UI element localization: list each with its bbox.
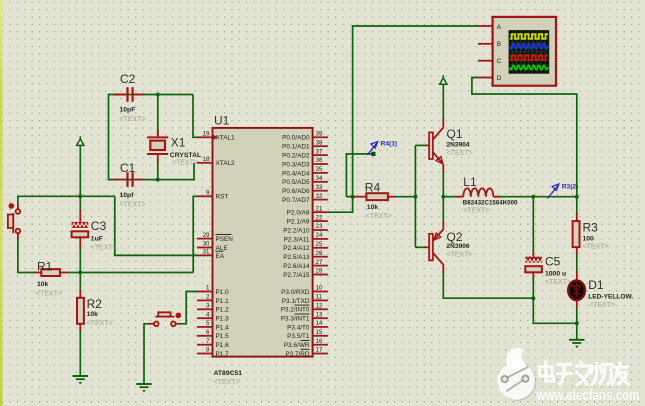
svg-text:A: A <box>497 24 502 31</box>
pin 12 P3.2/INT0 stub <box>281 303 328 314</box>
svg-text:6: 6 <box>206 329 210 336</box>
svg-text:P2.0/A8: P2.0/A8 <box>287 210 310 217</box>
svg-text:R3(2): R3(2) <box>562 183 579 190</box>
diode D1 LED-YELLOW <box>568 271 585 323</box>
oscilloscope pin B stub <box>478 43 493 45</box>
svg-text:R3: R3 <box>583 220 599 234</box>
inductor L1 <box>443 188 533 196</box>
svg-text:P1.5: P1.5 <box>216 333 230 340</box>
svg-text:C1: C1 <box>120 161 136 175</box>
svg-text:10pF: 10pF <box>120 106 136 113</box>
scope trace channel A (yellow square) <box>510 34 548 39</box>
svg-text:P0.6/AD6: P0.6/AD6 <box>282 188 310 195</box>
wire: P2.0 to riser <box>328 197 353 213</box>
pin 33 P0.6/AD6 stub <box>282 184 328 195</box>
svg-text:100: 100 <box>583 235 595 242</box>
svg-text:R4(1): R4(1) <box>381 140 398 147</box>
svg-text:R4: R4 <box>365 180 381 194</box>
pin 7 P1.6 stub <box>197 338 229 349</box>
pin 19 XTAL1 stub <box>197 131 235 142</box>
svg-text:<TEXT>: <TEXT> <box>87 320 113 327</box>
probe R4(1) attach square <box>371 152 375 156</box>
svg-text:14: 14 <box>316 320 323 327</box>
svg-text:U1: U1 <box>214 114 230 128</box>
capacitor C2 <box>114 87 144 102</box>
wire: XTAL1 branch vertical and into pin <box>193 95 198 138</box>
svg-text:16: 16 <box>316 338 323 345</box>
svg-text:P3.5/T1: P3.5/T1 <box>287 333 310 340</box>
svg-text:<TEXT>: <TEXT> <box>447 150 473 157</box>
wire: RST riser <box>193 196 197 272</box>
svg-text:<TEXT>: <TEXT> <box>463 208 489 215</box>
svg-text:P1.0: P1.0 <box>216 289 230 296</box>
svg-text:10pf: 10pf <box>120 192 135 199</box>
svg-text:P0.5/AD5: P0.5/AD5 <box>282 179 310 186</box>
pin 23 P2.2/A10 stub <box>283 223 328 234</box>
pin 32 P0.7/AD7 stub <box>282 193 328 204</box>
svg-text:R1: R1 <box>37 259 53 273</box>
svg-text:P2.1/A9: P2.1/A9 <box>287 219 310 226</box>
svg-text:C5: C5 <box>545 255 561 269</box>
svg-text:P0.7/AD7: P0.7/AD7 <box>282 197 310 204</box>
svg-text:P2.2/A10: P2.2/A10 <box>283 227 310 234</box>
svg-text:3: 3 <box>206 303 210 310</box>
pin 24 P2.3/A11 stub <box>284 232 328 243</box>
pin 8 P1.7 stub <box>197 347 229 358</box>
push button 2 (horizontal) <box>148 312 181 326</box>
svg-text:13: 13 <box>316 311 323 318</box>
svg-text:P2.3/A11: P2.3/A11 <box>284 236 310 243</box>
svg-text:10k: 10k <box>367 204 379 211</box>
wire: Q2 collector to bottom rail <box>443 272 533 298</box>
svg-text:P3.2/INT0: P3.2/INT0 <box>281 307 310 314</box>
svg-text:<TEXT>: <TEXT> <box>91 245 117 252</box>
svg-text:2N3904: 2N3904 <box>447 141 470 148</box>
node: C5 bottom junction <box>531 296 535 300</box>
svg-text:19: 19 <box>203 131 210 138</box>
wire: probe branch <box>346 154 371 197</box>
wire: riser up to scope rail <box>352 26 354 197</box>
resistor R3 <box>573 197 580 272</box>
pin 6 P1.5 stub <box>197 329 229 340</box>
wire: XTAL2 branch vertical <box>193 163 195 181</box>
wire: button2 to P1.0 <box>180 292 198 324</box>
svg-text:AT89C51: AT89C51 <box>214 370 243 377</box>
svg-text:P3.7/RD: P3.7/RD <box>285 351 310 358</box>
svg-text:12: 12 <box>316 303 323 310</box>
svg-text:5: 5 <box>206 320 210 327</box>
pin 35 P0.4/AD4 stub <box>282 166 328 177</box>
node: output node junction <box>575 195 579 199</box>
wire: base rail Q1-Q2 <box>414 145 416 247</box>
svg-text:29: 29 <box>203 232 210 239</box>
pin 9 RST stub <box>197 190 228 201</box>
pin 22 P2.1/A9 stub <box>287 214 328 225</box>
svg-text:37: 37 <box>316 148 323 155</box>
wire: left loop vertical C2-C1 <box>108 94 110 181</box>
wire: C1 bottom row <box>109 179 195 181</box>
svg-text:28: 28 <box>316 268 323 275</box>
svg-text:<TEXT>: <TEXT> <box>545 279 571 286</box>
oscilloscope screen <box>509 30 550 74</box>
power arrow VCC (Q1 collector) <box>440 75 447 120</box>
svg-text:www.elecfans.com: www.elecfans.com <box>536 388 640 404</box>
power arrow VCC (left) <box>77 136 84 196</box>
svg-text:B: B <box>497 41 501 48</box>
pin 15 P3.5/T1 stub <box>287 329 328 340</box>
node: crystal bottom junction <box>156 178 160 182</box>
svg-text:<TEXT>: <TEXT> <box>36 290 62 297</box>
pin 21 P2.0/A8 stub <box>287 205 328 216</box>
resistor R2 <box>77 273 84 376</box>
svg-text:23: 23 <box>316 223 323 230</box>
svg-text:CRYSTAL: CRYSTAL <box>170 152 201 159</box>
svg-text:9: 9 <box>206 190 210 197</box>
push button 1 (vertical) <box>8 196 20 240</box>
svg-text:P0.3/AD3: P0.3/AD3 <box>282 161 310 168</box>
svg-text:4: 4 <box>206 311 210 318</box>
ground (below R2) <box>73 376 89 383</box>
svg-text:RST: RST <box>216 194 229 201</box>
svg-text:D: D <box>497 75 502 82</box>
pin 13 P3.3/INT1 stub <box>281 311 328 322</box>
svg-text:1000 u: 1000 u <box>545 271 566 278</box>
node: C5 top junction <box>531 195 535 199</box>
svg-text:C3: C3 <box>91 219 107 233</box>
svg-text:8: 8 <box>206 347 210 354</box>
svg-text:P2.5/A13: P2.5/A13 <box>283 254 310 261</box>
svg-text:30: 30 <box>203 241 210 248</box>
wire: bottom rail to ground node <box>533 298 577 323</box>
microcontroller U1 AT89C51 <box>213 128 313 357</box>
svg-text:P3.1/TXD: P3.1/TXD <box>282 298 310 305</box>
pin 27 P2.6/A14 stub <box>283 259 328 270</box>
svg-text:P1.2: P1.2 <box>216 307 230 314</box>
node: base junction <box>413 195 417 199</box>
node A junction <box>78 194 82 198</box>
svg-text:P2.6/A14: P2.6/A14 <box>283 263 310 270</box>
svg-text:P3.6/WR: P3.6/WR <box>284 342 310 349</box>
oscilloscope pin D stub <box>478 77 493 79</box>
svg-text:<TEXT>: <TEXT> <box>172 159 198 166</box>
svg-text:22: 22 <box>316 214 323 221</box>
svg-text:<TEXT>: <TEXT> <box>583 243 609 250</box>
svg-text:17: 17 <box>316 347 323 354</box>
svg-text:2: 2 <box>206 294 210 301</box>
scope trace channel C (red square) <box>510 55 548 60</box>
pin 28 P2.7/A15 stub <box>283 268 328 279</box>
svg-text:<TEXT>: <TEXT> <box>366 213 392 220</box>
scope trace channel B (blue sine) <box>510 44 549 49</box>
svg-text:Q1: Q1 <box>447 127 463 141</box>
pin 30 ALE stub <box>197 241 228 252</box>
wire: L1 to output node <box>533 196 577 198</box>
svg-text:31: 31 <box>203 249 210 256</box>
svg-text:P0.0/AD0: P0.0/AD0 <box>282 135 310 142</box>
wire: node B to RST riser <box>80 272 193 274</box>
wire: node A corner down to EA <box>115 196 198 255</box>
svg-text:LED-YELLOW.: LED-YELLOW. <box>588 293 633 300</box>
svg-text:35: 35 <box>316 166 323 173</box>
svg-text:P1.7: P1.7 <box>216 351 230 358</box>
svg-text:P1.4: P1.4 <box>216 324 230 331</box>
pin 29 PSEN stub <box>197 232 233 243</box>
svg-text:P1.3: P1.3 <box>216 316 230 323</box>
node: ground-rail junction <box>575 321 579 325</box>
svg-text:39: 39 <box>316 131 323 138</box>
svg-text:P2.4/A12: P2.4/A12 <box>283 245 310 252</box>
svg-text:<TEXT>: <TEXT> <box>447 252 473 259</box>
capacitor C3 (electrolytic) <box>72 196 89 272</box>
svg-text:L1: L1 <box>463 175 477 189</box>
svg-text:R2: R2 <box>87 297 103 311</box>
ground (output) <box>569 323 585 346</box>
pin 36 P0.3/AD3 stub <box>282 157 328 168</box>
svg-text:<TEXT>: <TEXT> <box>120 116 146 123</box>
svg-text:24: 24 <box>316 232 323 239</box>
pin 31 EA stub <box>197 249 225 260</box>
pin 3 P1.2 stub <box>197 303 229 314</box>
transistor Q2 2N3906 <box>415 197 443 273</box>
svg-text:18: 18 <box>203 156 210 163</box>
pin 11 P3.1/TXD stub <box>282 294 328 305</box>
watermark logo (decorative) <box>498 348 537 401</box>
svg-text:P2.7/A15: P2.7/A15 <box>283 272 310 279</box>
svg-text:P0.2/AD2: P0.2/AD2 <box>282 153 310 160</box>
svg-text:36: 36 <box>316 157 323 164</box>
svg-text:10k: 10k <box>37 281 49 288</box>
svg-text:P3.4/T0: P3.4/T0 <box>287 324 310 331</box>
svg-text:1: 1 <box>206 285 210 292</box>
svg-text:P3.0/RXD: P3.0/RXD <box>281 289 310 296</box>
svg-text:C2: C2 <box>120 72 136 86</box>
watermark CJK brand strokes (decorative) <box>540 362 629 385</box>
pin 2 P1.1 stub <box>197 294 229 305</box>
resistor R4 <box>353 193 415 200</box>
wire: C2 top row to XTAL1 branch <box>109 94 194 96</box>
svg-text:C: C <box>497 58 502 65</box>
svg-text:7: 7 <box>206 338 210 345</box>
pin 10 P3.0/RXD stub <box>281 285 328 296</box>
oscilloscope pin C stub <box>478 60 493 62</box>
svg-text:P1.1: P1.1 <box>216 298 230 305</box>
pin 1 P1.0 stub <box>197 285 229 296</box>
pin 16 P3.6/WR stub <box>284 338 328 349</box>
probe R4(1) arrow <box>367 142 378 155</box>
pin 26 P2.5/A13 stub <box>283 250 328 261</box>
pin 4 P1.3 stub <box>197 311 229 322</box>
svg-text:P0.4/AD4: P0.4/AD4 <box>282 170 310 177</box>
svg-text:X1: X1 <box>171 136 186 150</box>
svg-text:Q2: Q2 <box>447 230 463 244</box>
wire: node A horizontal (button to corner) <box>18 195 115 197</box>
svg-text:15: 15 <box>316 329 323 336</box>
svg-text:PSEN: PSEN <box>216 236 234 243</box>
resistor R1 <box>33 269 80 276</box>
svg-text:XTAL2: XTAL2 <box>216 160 236 167</box>
pin 39 P0.0/AD0 stub <box>282 131 328 142</box>
svg-text:34: 34 <box>316 175 323 182</box>
pin 14 P3.4/T0 stub <box>287 320 328 331</box>
left page-edge stripe <box>0 0 2 406</box>
svg-text:P3.3/INT1: P3.3/INT1 <box>281 316 310 323</box>
svg-text:11: 11 <box>316 294 323 301</box>
probe R3(2) arrow <box>548 184 560 199</box>
svg-text:<TEXT>: <TEXT> <box>214 379 240 386</box>
svg-text:P0.1/AD1: P0.1/AD1 <box>282 144 310 151</box>
svg-text:10k: 10k <box>87 311 99 318</box>
svg-text:26: 26 <box>316 250 323 257</box>
node: crystal top junction <box>156 93 160 97</box>
pin 5 P1.4 stub <box>197 320 229 331</box>
pin 34 P0.5/AD5 stub <box>282 175 328 186</box>
wire: scope D loop to output node <box>472 78 577 197</box>
scope trace channel D (green sine) <box>510 65 549 69</box>
svg-text:27: 27 <box>316 259 323 266</box>
capacitor C1 <box>114 172 144 187</box>
transistor Q1 2N3904 <box>415 119 443 197</box>
wire: button2 to ground <box>144 324 149 384</box>
svg-text:XTAL1: XTAL1 <box>216 135 236 142</box>
svg-text:P1.6: P1.6 <box>216 342 230 349</box>
svg-text:33: 33 <box>316 184 323 191</box>
svg-text:21: 21 <box>316 205 323 212</box>
svg-text:<TEXT>: <TEXT> <box>589 302 615 309</box>
svg-text:<TEXT>: <TEXT> <box>120 201 146 208</box>
pin 18 XTAL2 stub <box>197 156 235 167</box>
pin 38 P0.1/AD1 stub <box>282 139 328 150</box>
oscilloscope pin A stub <box>478 25 493 27</box>
svg-text:25: 25 <box>316 241 323 248</box>
wire: top rail to scope channel A <box>352 25 479 27</box>
oscilloscope <box>493 17 556 86</box>
svg-text:32: 32 <box>316 193 323 200</box>
svg-text:B82432C1564K000: B82432C1564K000 <box>463 200 518 207</box>
pin 17 P3.7/RD stub <box>285 347 328 358</box>
svg-text:38: 38 <box>316 139 323 146</box>
ground (below button2) <box>136 384 152 391</box>
node B junction <box>78 271 82 275</box>
wire: button1 bottom to R1 <box>18 239 34 273</box>
svg-text:1uF: 1uF <box>91 236 103 243</box>
svg-text:10: 10 <box>316 285 323 292</box>
capacitor C5 (electrolytic) <box>525 197 542 299</box>
svg-text:2N3906: 2N3906 <box>447 243 470 250</box>
svg-text:EA: EA <box>216 253 225 260</box>
crystal X1 <box>147 95 168 181</box>
svg-text:D1: D1 <box>588 278 604 292</box>
node: R4 left junction <box>351 195 355 199</box>
pin 25 P2.4/A12 stub <box>283 241 328 252</box>
pin 37 P0.2/AD2 stub <box>282 148 328 159</box>
node: output junction (emitters) <box>441 195 445 199</box>
